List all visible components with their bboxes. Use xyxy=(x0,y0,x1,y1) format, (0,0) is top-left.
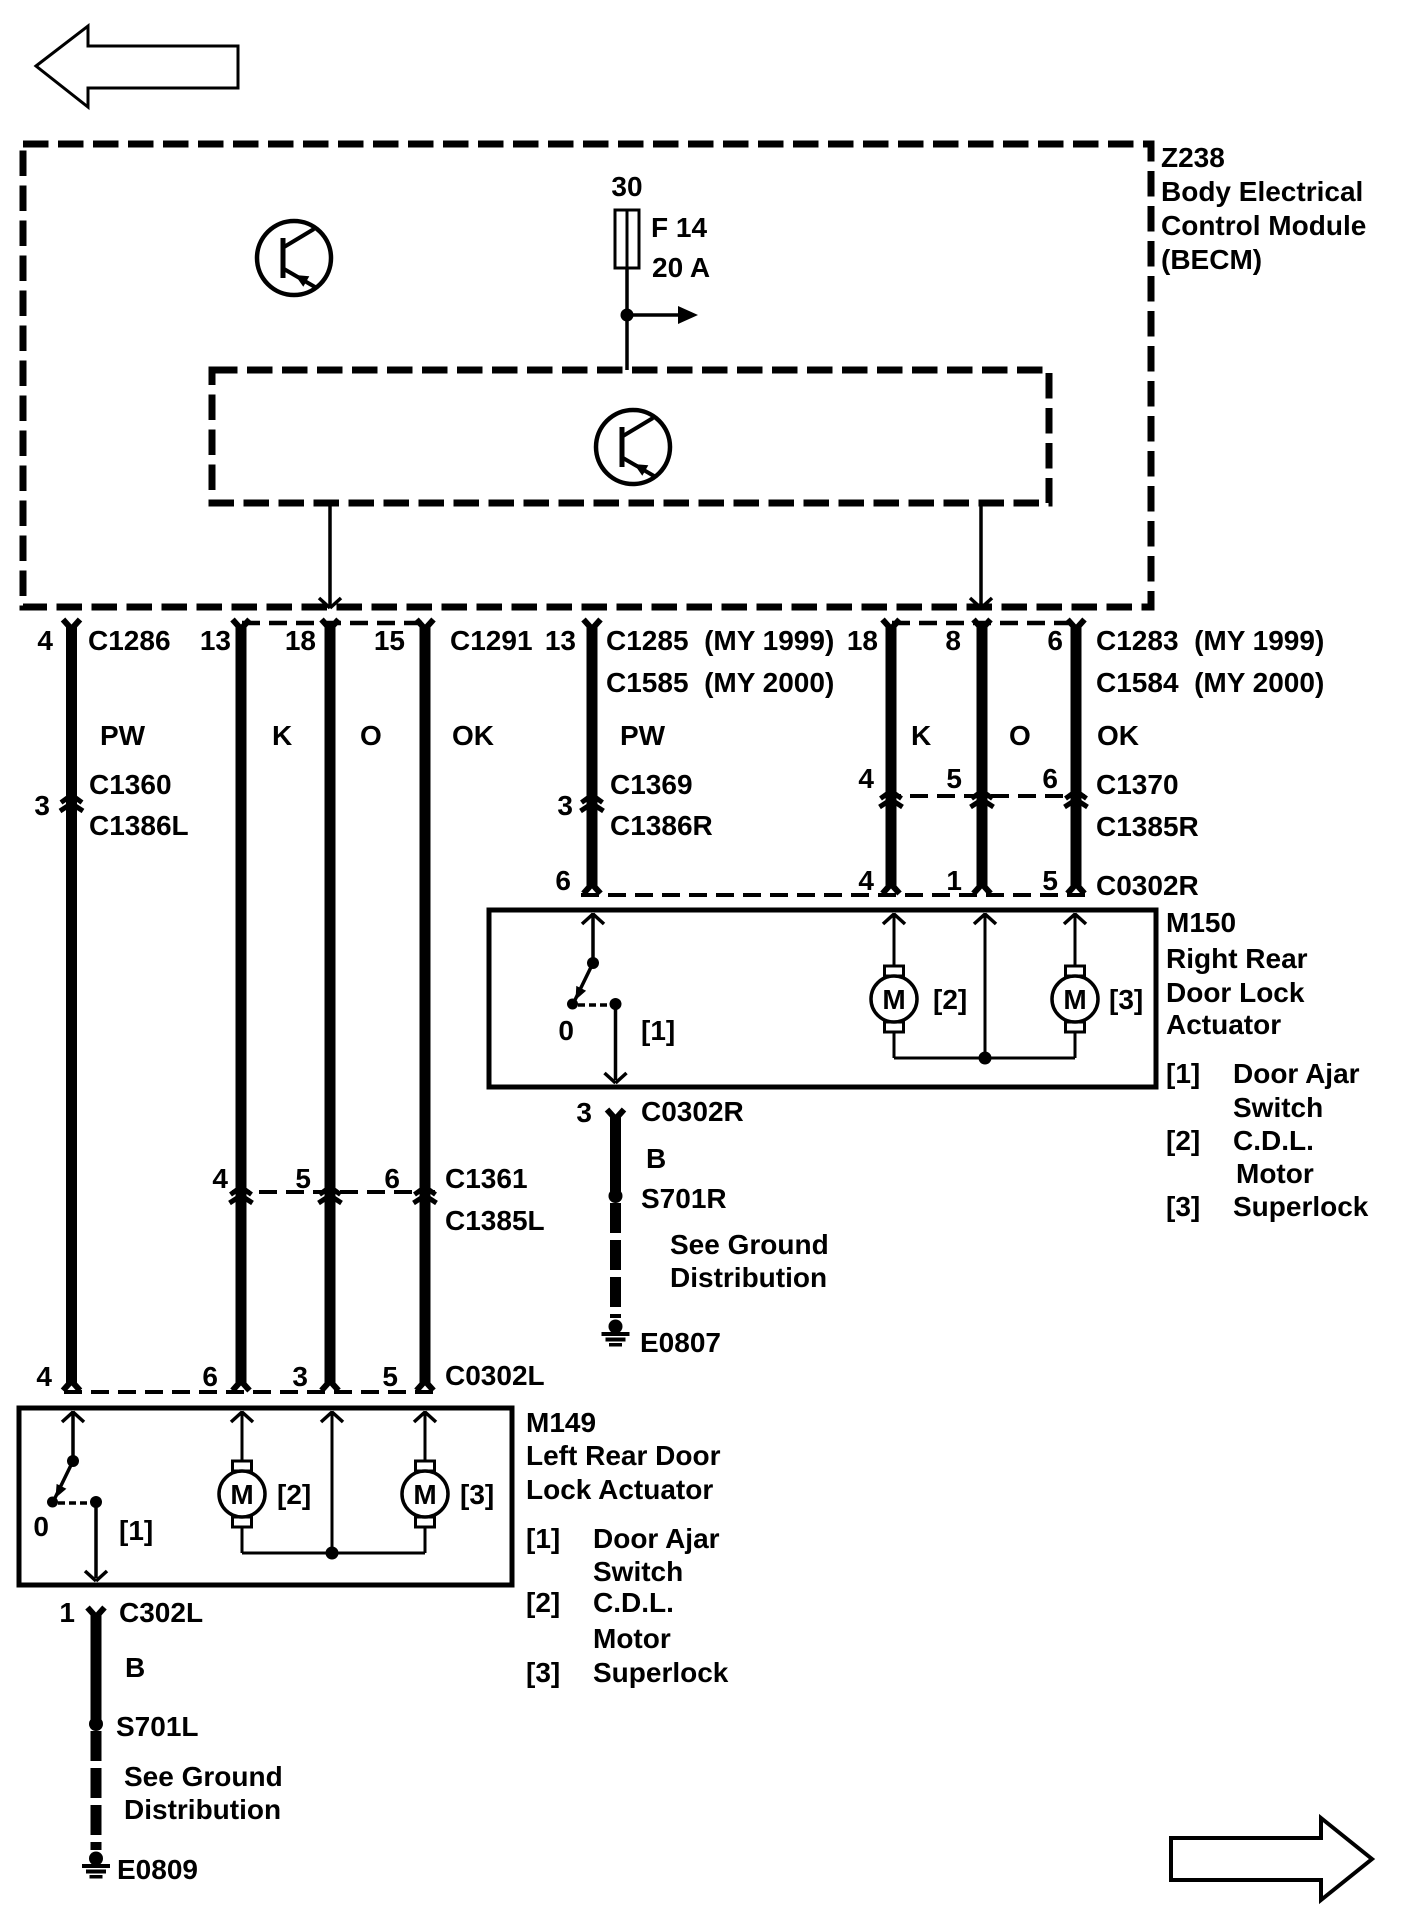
svg-text:6: 6 xyxy=(555,865,571,896)
svg-text:3: 3 xyxy=(292,1361,308,1392)
svg-text:S701L: S701L xyxy=(116,1711,199,1742)
svg-text:M150: M150 xyxy=(1166,907,1236,938)
svg-text:C0302R: C0302R xyxy=(641,1096,744,1127)
svg-text:18: 18 xyxy=(847,625,878,656)
svg-text:E0809: E0809 xyxy=(117,1854,198,1885)
svg-text:4: 4 xyxy=(36,1361,52,1392)
svg-text:13: 13 xyxy=(200,625,231,656)
svg-text:Distribution: Distribution xyxy=(124,1794,281,1825)
svg-text:C1285 (MY 1999): C1285 (MY 1999) xyxy=(606,625,834,656)
svg-text:4: 4 xyxy=(37,625,53,656)
svg-text:C1370: C1370 xyxy=(1096,769,1179,800)
svg-text:M: M xyxy=(230,1479,253,1510)
svg-text:C1361: C1361 xyxy=(445,1163,528,1194)
svg-text:[3]: [3] xyxy=(1166,1191,1200,1222)
svg-text:1: 1 xyxy=(946,865,962,896)
svg-text:3: 3 xyxy=(34,790,50,821)
svg-text:Body Electrical: Body Electrical xyxy=(1161,176,1363,207)
svg-text:M: M xyxy=(882,984,905,1015)
svg-text:M149: M149 xyxy=(526,1407,596,1438)
svg-text:PW: PW xyxy=(100,720,146,751)
svg-text:[3]: [3] xyxy=(526,1657,560,1688)
svg-text:C1386R: C1386R xyxy=(610,810,713,841)
svg-text:[2]: [2] xyxy=(933,984,967,1015)
svg-text:[1]: [1] xyxy=(1166,1058,1200,1089)
svg-text:Switch: Switch xyxy=(593,1556,683,1587)
svg-text:[2]: [2] xyxy=(1166,1125,1200,1156)
svg-text:Right Rear: Right Rear xyxy=(1166,943,1308,974)
svg-text:18: 18 xyxy=(285,625,316,656)
svg-text:C1585 (MY 2000): C1585 (MY 2000) xyxy=(606,667,834,698)
svg-text:Motor: Motor xyxy=(1236,1158,1314,1189)
svg-text:0: 0 xyxy=(558,1015,574,1046)
svg-text:C302L: C302L xyxy=(119,1597,203,1628)
svg-text:(BECM): (BECM) xyxy=(1161,244,1262,275)
svg-text:6: 6 xyxy=(1042,763,1058,794)
svg-text:Superlock: Superlock xyxy=(593,1657,729,1688)
svg-text:4: 4 xyxy=(858,865,874,896)
svg-text:[2]: [2] xyxy=(526,1587,560,1618)
svg-text:C1385R: C1385R xyxy=(1096,811,1199,842)
svg-text:Z238: Z238 xyxy=(1161,142,1225,173)
svg-text:1: 1 xyxy=(59,1597,75,1628)
svg-text:Control Module: Control Module xyxy=(1161,210,1366,241)
svg-text:O: O xyxy=(1009,720,1031,751)
svg-text:OK: OK xyxy=(1097,720,1139,751)
svg-text:C.D.L.: C.D.L. xyxy=(593,1587,674,1618)
svg-text:30: 30 xyxy=(611,171,642,202)
svg-text:C1286: C1286 xyxy=(88,625,171,656)
svg-text:C1385L: C1385L xyxy=(445,1205,545,1236)
svg-text:3: 3 xyxy=(557,790,573,821)
svg-text:C1369: C1369 xyxy=(610,769,693,800)
svg-text:B: B xyxy=(125,1652,145,1683)
svg-text:20 A: 20 A xyxy=(652,252,710,283)
svg-text:Actuator: Actuator xyxy=(1166,1009,1281,1040)
svg-text:C1386L: C1386L xyxy=(89,810,189,841)
svg-text:[3]: [3] xyxy=(1109,984,1143,1015)
svg-text:Motor: Motor xyxy=(593,1623,671,1654)
svg-text:C0302R: C0302R xyxy=(1096,870,1199,901)
svg-text:5: 5 xyxy=(382,1361,398,1392)
svg-text:M: M xyxy=(413,1479,436,1510)
svg-text:Distribution: Distribution xyxy=(670,1262,827,1293)
svg-text:M: M xyxy=(1063,984,1086,1015)
svg-text:PW: PW xyxy=(620,720,666,751)
svg-text:[2]: [2] xyxy=(277,1479,311,1510)
svg-text:13: 13 xyxy=(545,625,576,656)
svg-text:3: 3 xyxy=(576,1097,592,1128)
svg-text:See Ground: See Ground xyxy=(670,1229,829,1260)
svg-text:K: K xyxy=(272,720,292,751)
svg-text:B: B xyxy=(646,1143,666,1174)
svg-text:4: 4 xyxy=(858,763,874,794)
svg-text:5: 5 xyxy=(946,763,962,794)
svg-text:C1584 (MY 2000): C1584 (MY 2000) xyxy=(1096,667,1324,698)
svg-text:0: 0 xyxy=(33,1511,49,1542)
svg-text:6: 6 xyxy=(384,1163,400,1194)
svg-text:Superlock: Superlock xyxy=(1233,1191,1369,1222)
svg-text:OK: OK xyxy=(452,720,494,751)
svg-text:Door Ajar: Door Ajar xyxy=(593,1523,720,1554)
svg-text:Door Ajar: Door Ajar xyxy=(1233,1058,1360,1089)
svg-text:4: 4 xyxy=(212,1163,228,1194)
svg-text:C1360: C1360 xyxy=(89,769,172,800)
svg-text:[3]: [3] xyxy=(460,1479,494,1510)
svg-text:O: O xyxy=(360,720,382,751)
svg-text:[1]: [1] xyxy=(526,1523,560,1554)
svg-text:S701R: S701R xyxy=(641,1183,727,1214)
svg-text:See Ground: See Ground xyxy=(124,1761,283,1792)
svg-text:C0302L: C0302L xyxy=(445,1360,545,1391)
svg-text:15: 15 xyxy=(374,625,405,656)
svg-text:E0807: E0807 xyxy=(640,1327,721,1358)
svg-text:[1]: [1] xyxy=(119,1515,153,1546)
svg-text:K: K xyxy=(911,720,931,751)
svg-text:6: 6 xyxy=(202,1361,218,1392)
svg-text:Switch: Switch xyxy=(1233,1092,1323,1123)
svg-text:C1283 (MY 1999): C1283 (MY 1999) xyxy=(1096,625,1324,656)
svg-text:Door Lock: Door Lock xyxy=(1166,977,1305,1008)
svg-text:5: 5 xyxy=(1042,865,1058,896)
svg-text:[1]: [1] xyxy=(641,1015,675,1046)
svg-text:F 14: F 14 xyxy=(651,212,707,243)
svg-text:6: 6 xyxy=(1047,625,1063,656)
svg-text:Left Rear Door: Left Rear Door xyxy=(526,1440,721,1471)
svg-text:8: 8 xyxy=(945,625,961,656)
svg-text:C1291: C1291 xyxy=(450,625,533,656)
svg-text:Lock Actuator: Lock Actuator xyxy=(526,1474,713,1505)
svg-text:C.D.L.: C.D.L. xyxy=(1233,1125,1314,1156)
svg-text:5: 5 xyxy=(295,1163,311,1194)
